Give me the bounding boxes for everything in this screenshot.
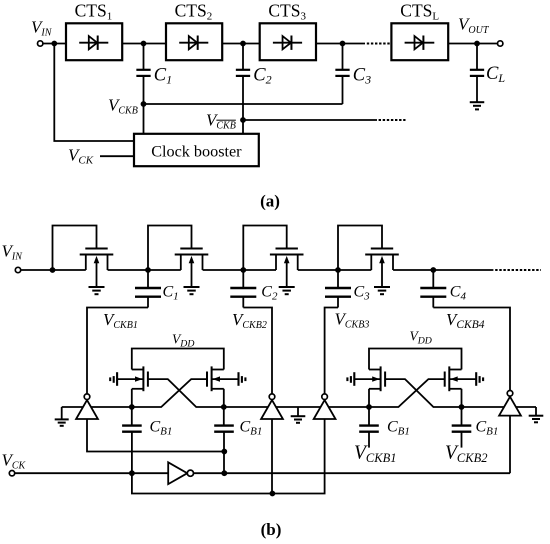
svg-text:Clock booster: Clock booster <box>151 143 242 161</box>
charge transfer switch CTS1 box <box>66 23 122 60</box>
inverter U2 (VCKB2) <box>261 400 283 419</box>
wire CTSL to VOUT <box>448 43 497 45</box>
node VOUT dot <box>474 41 480 47</box>
transistor M2 <box>180 248 202 250</box>
ground under M4 <box>374 286 390 288</box>
wire node line left of latch1 <box>62 406 132 408</box>
wire VCKB line <box>144 103 343 105</box>
node inverted clock dot <box>221 449 227 455</box>
capacitor CB1 latch1 right <box>223 407 225 426</box>
svg-text:(b): (b) <box>261 520 282 539</box>
diode inside CTS1 <box>79 42 108 44</box>
bulk terminal latch1 left <box>116 372 118 386</box>
wire VCKBbar line <box>243 119 377 121</box>
capacitor C3 (b) <box>337 270 339 288</box>
wire M4 to output <box>393 269 493 271</box>
transistor latch2 left <box>369 369 381 371</box>
ground G2 <box>297 407 299 416</box>
wire node line right of latch2 <box>462 406 537 408</box>
inverter U4 (VCKB4) <box>499 397 521 416</box>
node N3 dot <box>340 41 346 47</box>
wire VCKB2 net <box>243 308 272 395</box>
capacitor C3 (a) <box>342 44 344 70</box>
node VCK branch dot <box>270 491 276 497</box>
inverter U5 (clock) <box>168 462 187 484</box>
node B5 dot <box>430 267 436 273</box>
wire VIN to clock booster <box>54 44 134 142</box>
wire VCKBbar to booster <box>242 120 244 134</box>
svg-text:(a): (a) <box>260 192 280 211</box>
wire gate loop M4 <box>338 226 382 271</box>
node VCKB dot <box>141 101 147 107</box>
transistor M1 <box>85 248 107 250</box>
bulk terminal latch2 right <box>475 372 477 386</box>
wire VCK line <box>15 472 510 474</box>
wire M3 to M4 <box>298 269 372 271</box>
output terminal VOUT <box>498 41 503 46</box>
capacitor C4 (b) <box>432 270 434 288</box>
capacitor C1 (a) <box>143 44 145 70</box>
diode inside CTS2 <box>179 42 208 44</box>
input terminal VCK (b) <box>9 471 14 476</box>
wire node line between latches <box>224 406 369 408</box>
wire VCK branch lower <box>132 419 325 494</box>
node N1 dot <box>141 41 147 47</box>
wire gate loop M3 <box>243 226 286 271</box>
transistor M3 <box>276 248 298 250</box>
bulk terminal latch1 right <box>237 372 239 386</box>
ground under M2 <box>184 286 200 288</box>
transistor latch1 right <box>212 369 224 371</box>
capacitor C1 (b) <box>147 270 149 288</box>
wire CTS3 to node N3 <box>316 43 365 45</box>
dashed wire output (b) <box>495 269 541 271</box>
cross-coupled gate wires latch2 <box>385 379 461 407</box>
svg-text:CTS2: CTS2 <box>175 1 213 23</box>
wire M1 to M2 <box>108 269 181 271</box>
wire M2 to M3 <box>203 269 276 271</box>
input terminal VIN (b) <box>15 267 20 272</box>
node latch1 left dot <box>129 404 135 410</box>
node B2 dot <box>145 267 151 273</box>
node VCK-CB1 dot <box>129 470 135 476</box>
ground under M3 <box>279 286 295 288</box>
capacitor C2 (a) <box>242 44 244 70</box>
wire CTS1 to CTS2 <box>122 43 166 45</box>
ground under M1 <box>89 286 105 288</box>
transistor latch2 right <box>449 369 461 371</box>
capacitor CB1 latch2 right <box>461 407 463 426</box>
bulk terminal latch2 left <box>353 372 355 386</box>
node latch1 right dot <box>221 404 227 410</box>
capacitor CB1 latch1 left <box>131 407 133 426</box>
VDD rail latch1 <box>132 349 224 370</box>
dashed wire VCKBbar <box>379 119 406 121</box>
svg-text:CTS1: CTS1 <box>75 1 113 23</box>
wire VIN to CTS1 <box>43 43 66 45</box>
wire CTS2 to CTS3 <box>222 43 260 45</box>
node B3 dot <box>240 267 246 273</box>
wire inverted clock line <box>87 419 224 452</box>
input terminal VIN (a) <box>38 41 43 46</box>
node clock inverter output dot <box>221 470 227 476</box>
diode inside CTS3 <box>273 42 302 44</box>
inverter U1 (VCKB1) <box>76 400 98 419</box>
wire VIN to M1 <box>21 269 86 271</box>
diode inside CTSL <box>405 42 435 44</box>
VDD rail latch2 <box>369 349 462 370</box>
node VCKBbar dot <box>240 117 246 123</box>
node B4 dot <box>335 267 341 273</box>
node B1 dot <box>50 267 56 273</box>
node latch2 right dot <box>459 404 465 410</box>
dashed wire N3 to CTSL <box>367 43 391 45</box>
wire gate loop M1 <box>53 226 97 271</box>
transistor M4 <box>371 248 393 250</box>
wire U4 input <box>509 415 511 473</box>
ground under CL <box>470 101 485 103</box>
ground G1 <box>61 407 63 419</box>
capacitor C2 (b) <box>242 270 244 288</box>
wire VCKB1 net <box>87 308 148 395</box>
node N2 dot <box>240 41 246 47</box>
charge transfer switch CTS3 box <box>260 23 316 60</box>
wire U2 input <box>271 419 273 494</box>
node latch2 left dot <box>366 404 372 410</box>
transistor latch1 left <box>132 369 144 371</box>
node A1 junction dot <box>51 41 57 47</box>
wire gate loop M2 <box>148 226 192 271</box>
clock booster box <box>134 134 259 166</box>
inverter U3 (VCKB3) <box>314 400 336 419</box>
wire VCKB to booster <box>143 104 145 134</box>
wire VCKB4 net <box>433 308 510 391</box>
capacitor CL <box>476 44 478 70</box>
ground G3 <box>535 407 537 416</box>
wire VCKB3 net <box>325 308 338 395</box>
charge transfer switch CTSL box <box>391 23 448 60</box>
wire VCK (a) <box>100 155 134 157</box>
capacitor CB1 latch2 left <box>368 407 370 426</box>
cross-coupled gate wires latch1 <box>148 379 224 407</box>
charge transfer switch CTS2 box <box>166 23 222 60</box>
